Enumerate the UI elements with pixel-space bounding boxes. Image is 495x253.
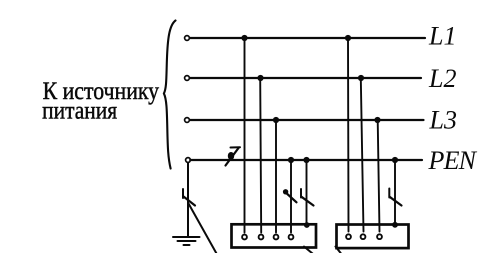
svg-text:L2: L2 bbox=[428, 64, 456, 93]
wire: PEN bus bbox=[190, 159, 422, 161]
wire: PEN earthing conductor bbox=[187, 163, 189, 237]
node: L2 source terminal bbox=[185, 76, 190, 81]
distribution board 1 (enclosure) bbox=[232, 224, 317, 247]
junction on PEN (board 2 PE link) bbox=[392, 157, 398, 163]
node: PE bond on board 2 bbox=[392, 222, 398, 228]
svg-text:L1: L1 bbox=[428, 22, 456, 51]
wire: L1 drop to board 2 bbox=[347, 38, 350, 232]
wire: L3 drop to board 2 bbox=[378, 120, 380, 232]
disconnect link on earthing conductor bbox=[183, 189, 195, 206]
leader diagonal below board 2 bbox=[336, 247, 342, 253]
junction on L2 (feeder 1) bbox=[257, 75, 263, 81]
disconnect link on PEN bus bbox=[226, 147, 241, 165]
terminal L1 board 1 bbox=[242, 235, 247, 240]
node: L3 source terminal bbox=[185, 118, 190, 123]
leader diagonal at ground bbox=[189, 204, 217, 253]
junction on L1 (feeder 1) bbox=[241, 35, 247, 41]
junction on L2 (feeder 2) bbox=[358, 75, 364, 81]
disconnect link on PEN drop (board 1) bbox=[283, 189, 297, 202]
terminal L3 board 1 bbox=[274, 235, 279, 240]
leader diagonal below board 1 bbox=[304, 247, 313, 253]
wire: PEN drop to board 1 terminal bbox=[290, 160, 292, 233]
terminal PEN board 1 bbox=[289, 235, 294, 240]
wire: L3 bus bbox=[190, 119, 423, 121]
distribution board 2 (enclosure) bbox=[337, 225, 409, 249]
svg-text:PEN: PEN bbox=[428, 146, 478, 175]
node: PE bond on board 1 bbox=[304, 222, 310, 228]
junction on L1 (feeder 2) bbox=[345, 35, 351, 41]
node: L1 source terminal bbox=[185, 36, 190, 41]
junction on L3 (feeder 1) bbox=[273, 117, 279, 123]
wire: L2 drop to board 2 bbox=[361, 78, 364, 232]
label: К источнику питания bbox=[42, 78, 159, 125]
wire: L1 drop to board 1 bbox=[244, 38, 246, 233]
wire: L2 bus bbox=[190, 77, 421, 79]
wire: L1 bus bbox=[190, 37, 425, 39]
junction on L3 (feeder 2) bbox=[374, 117, 380, 123]
brace (source grouping) bbox=[164, 21, 176, 169]
node: PEN source terminal bbox=[186, 158, 191, 163]
junction on PEN (board 1 PE link) bbox=[303, 157, 309, 163]
wire: PE drop to board 1 enclosure bbox=[306, 160, 308, 225]
terminal L2 board 2 bbox=[361, 234, 366, 239]
terminal L1 board 2 bbox=[346, 234, 351, 239]
terminal L3 board 2 bbox=[377, 234, 382, 239]
disconnect link on PE drop (board 1) bbox=[301, 189, 314, 206]
ground bbox=[173, 237, 200, 245]
svg-text:L3: L3 bbox=[429, 106, 457, 135]
disconnect link on PE drop (board 2) bbox=[389, 189, 401, 206]
wire: L3 drop to board 1 bbox=[275, 120, 277, 233]
svg-text:питания: питания bbox=[42, 98, 117, 125]
wire: PE drop to board 2 enclosure bbox=[394, 160, 396, 225]
wire: L2 drop to board 1 bbox=[260, 78, 261, 233]
junction on PEN (feeder 1 neutral) bbox=[288, 157, 294, 163]
terminal L2 board 1 bbox=[259, 235, 264, 240]
